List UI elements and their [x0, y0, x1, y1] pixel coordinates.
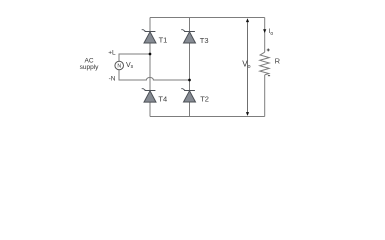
svg-text:T3: T3: [200, 36, 209, 45]
thyristor T3: [181, 30, 195, 43]
wire: top rail: [150, 17, 265, 19]
arrowhead Vo up: [246, 18, 249, 22]
thyristor T4: [142, 89, 156, 102]
wire: left bridge branch: [149, 18, 151, 117]
svg-text:-N: -N: [109, 76, 116, 83]
node A junction dot (+L to left branch): [149, 53, 152, 56]
wire: bottom rail: [150, 116, 265, 118]
svg-text:supply: supply: [80, 64, 100, 71]
svg-text:T4: T4: [158, 95, 167, 104]
label + at load top: [267, 49, 270, 52]
svg-text:N: N: [117, 63, 121, 69]
wire: source L terminal to node A: [119, 54, 150, 61]
svg-text:T2: T2: [200, 94, 209, 103]
wire: source N terminal with hop over left branch to node B: [119, 70, 190, 80]
thyristor T2: [181, 89, 195, 102]
label - at load bottom: [268, 75, 270, 77]
svg-text:T1: T1: [159, 36, 168, 45]
voltage arrow line Vo: [247, 21, 249, 114]
svg-text:Vs: Vs: [126, 62, 134, 70]
wire: right bridge branch: [189, 18, 191, 117]
node B junction dot (N wire to right branch): [188, 79, 191, 82]
arrowhead Io down on load branch: [263, 29, 266, 33]
wire: load branch upper: [264, 18, 266, 53]
resistor R zigzag: [260, 52, 269, 75]
AC source Vs circle: [115, 61, 124, 70]
thyristor T1: [142, 30, 156, 43]
wire: load branch lower: [264, 75, 266, 117]
svg-text:+L: +L: [108, 50, 116, 57]
arrowhead Vo down: [246, 112, 249, 116]
svg-text:R: R: [275, 57, 281, 66]
